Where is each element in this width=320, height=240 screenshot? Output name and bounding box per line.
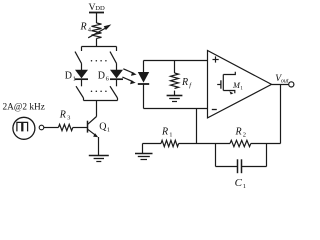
- svg-text:R: R: [235, 127, 242, 138]
- svg-text:6: 6: [106, 75, 110, 82]
- svg-text:D: D: [98, 71, 105, 82]
- svg-text:C: C: [235, 177, 243, 189]
- svg-text:D: D: [65, 71, 72, 82]
- svg-text:out: out: [281, 78, 289, 84]
- svg-text:1: 1: [107, 126, 110, 133]
- svg-text:1: 1: [243, 183, 246, 190]
- svg-text:2: 2: [243, 132, 246, 139]
- svg-text:4: 4: [88, 27, 92, 34]
- svg-text:1: 1: [240, 86, 243, 92]
- svg-text:1: 1: [73, 75, 76, 82]
- svg-text:R: R: [80, 22, 87, 33]
- svg-text:R: R: [161, 127, 168, 138]
- svg-text:2A@2 kHz: 2A@2 kHz: [3, 103, 45, 113]
- svg-text:R: R: [59, 109, 66, 120]
- svg-text:R: R: [181, 77, 188, 88]
- svg-text:1: 1: [169, 132, 172, 139]
- svg-text:3: 3: [67, 114, 70, 121]
- svg-text:DD: DD: [95, 5, 105, 12]
- svg-text:f: f: [189, 82, 192, 89]
